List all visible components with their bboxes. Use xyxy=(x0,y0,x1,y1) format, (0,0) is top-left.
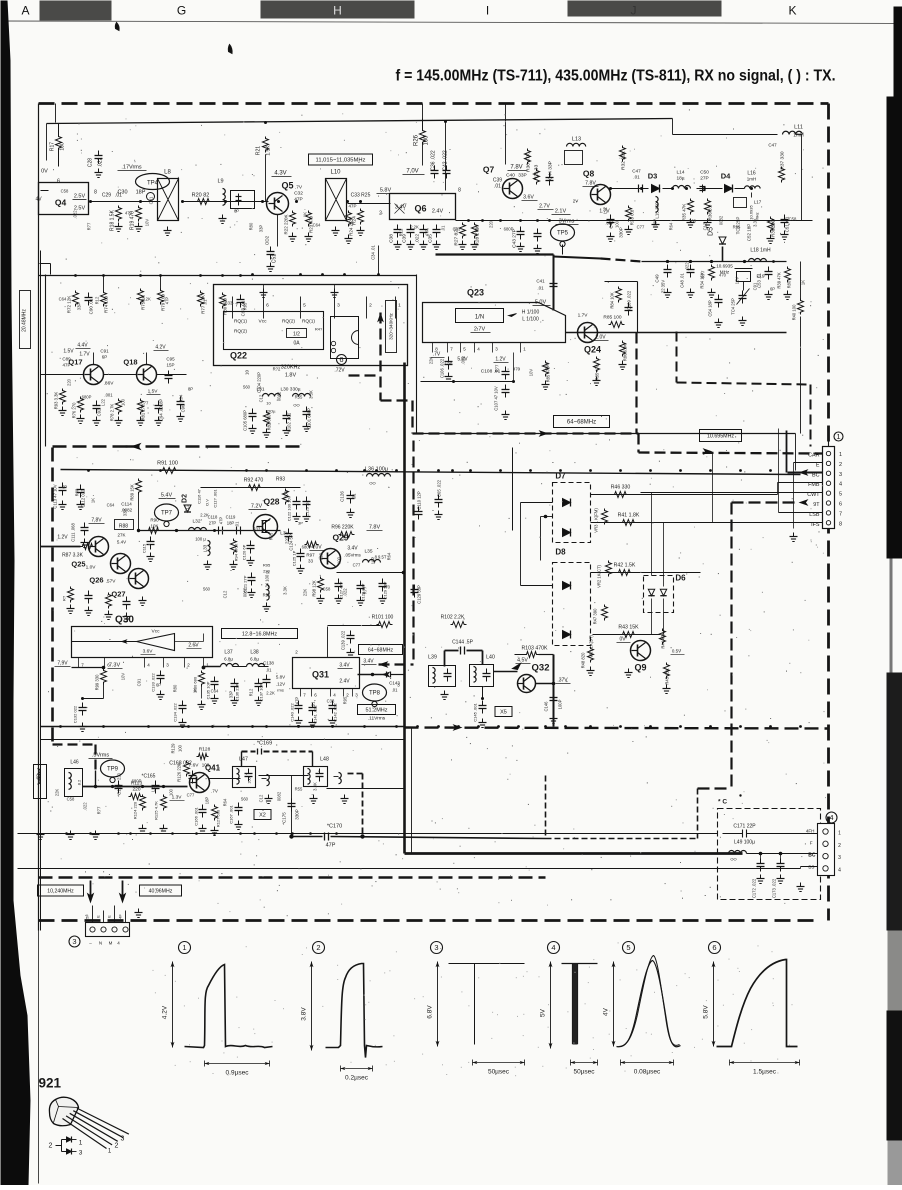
svg-text:3.6V: 3.6V xyxy=(143,649,154,655)
svg-text:.01: .01 xyxy=(494,184,501,190)
svg-text:11,015~11,035MHz: 11,015~11,035MHz xyxy=(316,158,366,164)
svg-text:C34 .01: C34 .01 xyxy=(371,244,376,259)
svg-text:L32: L32 xyxy=(192,519,200,525)
svg-text:R37 330: R37 330 xyxy=(780,151,786,169)
svg-text:BS: BS xyxy=(808,865,814,870)
svg-text:320KHz: 320KHz xyxy=(281,365,301,371)
svg-text:.01: .01 xyxy=(203,299,208,305)
svg-text:R36 3.3: R36 3.3 xyxy=(708,204,713,220)
svg-text:680P: 680P xyxy=(82,395,92,400)
svg-text:2: 2 xyxy=(369,303,372,309)
svg-text:1.5V: 1.5V xyxy=(148,389,159,395)
svg-text:.7V: .7V xyxy=(295,185,303,191)
svg-text:5: 5 xyxy=(626,943,630,952)
svg-text:D5: D5 xyxy=(708,227,715,236)
svg-text:R12: R12 xyxy=(249,688,254,696)
svg-text:R17: R17 xyxy=(50,142,56,151)
svg-text:BC: BC xyxy=(808,853,816,859)
svg-text:R39 47K: R39 47K xyxy=(777,272,782,289)
svg-text:R21: R21 xyxy=(256,146,262,155)
svg-text:100: 100 xyxy=(615,220,620,228)
svg-text:3.3K: 3.3K xyxy=(313,782,318,791)
svg-text:8P: 8P xyxy=(188,387,193,392)
svg-text:0082: 0082 xyxy=(277,391,282,401)
svg-text:1K: 1K xyxy=(91,498,96,503)
svg-text:560: 560 xyxy=(243,385,251,390)
svg-text:.01: .01 xyxy=(537,286,544,291)
svg-text:1.5V: 1.5V xyxy=(63,349,74,355)
svg-text:R?: R? xyxy=(62,595,67,601)
svg-text:F: F xyxy=(810,841,813,846)
svg-text:R76 270: R76 270 xyxy=(72,402,77,419)
svg-text:C136 22P: C136 22P xyxy=(235,683,240,701)
svg-text:* C: * C xyxy=(718,799,727,806)
svg-text:0V: 0V xyxy=(41,169,48,175)
svg-text:C142 .022: C142 .022 xyxy=(333,703,338,722)
svg-text:R64: R64 xyxy=(669,222,674,230)
svg-text:OO: OO xyxy=(369,481,375,486)
svg-text:R43 15K: R43 15K xyxy=(618,625,639,631)
svg-text:FMB: FMB xyxy=(808,482,820,488)
svg-text:C47: C47 xyxy=(768,143,777,148)
svg-text:6P: 6P xyxy=(770,287,775,292)
svg-text:1K: 1K xyxy=(303,212,308,217)
svg-text:L30 330µ: L30 330µ xyxy=(280,387,300,393)
svg-text:C138: C138 xyxy=(263,661,274,666)
svg-text:22K: 22K xyxy=(429,357,434,365)
svg-text:C64: C64 xyxy=(211,689,219,694)
svg-text:10: 10 xyxy=(266,401,271,406)
svg-text:f = 145.00MHz (TS-711), 435.00: f = 145.00MHz (TS-711), 435.00MHz (TS-81… xyxy=(396,68,836,85)
svg-text:7,8V: 7,8V xyxy=(91,518,102,524)
svg-text:5F: 5F xyxy=(85,914,90,919)
svg-text:L31: L31 xyxy=(256,387,264,393)
svg-text:L35: L35 xyxy=(364,549,372,555)
svg-text:R40 100: R40 100 xyxy=(792,304,797,321)
svg-text:2.2K: 2.2K xyxy=(200,513,209,518)
svg-text:3.4V: 3.4V xyxy=(339,663,350,669)
svg-text:3P: 3P xyxy=(298,521,303,526)
svg-text:.01: .01 xyxy=(115,193,122,199)
svg-text:C33: C33 xyxy=(225,301,233,306)
svg-text:C105 680P: C105 680P xyxy=(243,410,248,431)
svg-text:C125 1P: C125 1P xyxy=(292,550,297,566)
svg-text:10.695MHz: 10.695MHz xyxy=(707,433,734,439)
svg-text:1mH: 1mH xyxy=(747,177,757,182)
svg-text:4.4V: 4.4V xyxy=(77,343,88,349)
svg-text:R85 100: R85 100 xyxy=(603,315,621,321)
svg-text:D4: D4 xyxy=(721,172,731,181)
svg-text:.022: .022 xyxy=(83,802,88,811)
svg-text:1/2: 1/2 xyxy=(293,332,300,338)
svg-text:L48: L48 xyxy=(320,757,329,763)
svg-text:L40: L40 xyxy=(486,655,495,661)
svg-text:R55: R55 xyxy=(733,225,741,230)
svg-text:.01: .01 xyxy=(441,225,446,231)
svg-text:7: 7 xyxy=(839,511,842,517)
svg-text:R96 220K: R96 220K xyxy=(331,525,354,531)
svg-text:4F: 4F xyxy=(118,914,123,919)
svg-text:3: 3 xyxy=(79,1150,83,1157)
svg-text:R55: R55 xyxy=(295,395,303,400)
svg-text:C92: C92 xyxy=(97,408,102,416)
svg-text:1.2V: 1.2V xyxy=(57,535,68,541)
svg-text:100: 100 xyxy=(424,135,430,146)
svg-text:1/N: 1/N xyxy=(475,315,484,321)
svg-text:4: 4 xyxy=(829,813,833,822)
svg-text:2.2K: 2.2K xyxy=(266,691,275,696)
svg-text:470: 470 xyxy=(383,585,391,590)
svg-text:C96: C96 xyxy=(181,404,186,412)
svg-text:1.0V: 1.0V xyxy=(86,565,97,571)
svg-text:C33 R25: C33 R25 xyxy=(351,193,371,199)
svg-text:680P: 680P xyxy=(302,545,312,550)
svg-text:Q41: Q41 xyxy=(205,764,221,773)
svg-text:.022: .022 xyxy=(343,588,348,597)
svg-text:R93 3.3K: R93 3.3K xyxy=(54,392,59,410)
svg-text:Q27: Q27 xyxy=(111,590,125,599)
svg-text:220: 220 xyxy=(285,536,290,544)
svg-text:R103 470K: R103 470K xyxy=(522,646,548,652)
svg-text:15P: 15P xyxy=(166,363,174,368)
svg-text:4.5V: 4.5V xyxy=(517,658,528,664)
svg-text:C41: C41 xyxy=(536,279,545,284)
svg-text:Vcc: Vcc xyxy=(259,319,268,325)
svg-text:1: 1 xyxy=(182,943,186,952)
svg-text:7.6V: 7.6V xyxy=(189,763,200,769)
svg-text:R42 1.5K: R42 1.5K xyxy=(614,563,636,569)
svg-text:R94 470K: R94 470K xyxy=(234,543,239,561)
svg-text:4: 4 xyxy=(839,482,842,488)
svg-text:22K: 22K xyxy=(303,589,308,597)
svg-text:R89 15K: R89 15K xyxy=(130,484,135,501)
svg-text:33: 33 xyxy=(308,559,314,564)
svg-text:18P: 18P xyxy=(653,219,658,227)
svg-text:R33 6.8: R33 6.8 xyxy=(630,209,635,225)
svg-text:C143: C143 xyxy=(389,681,400,686)
svg-text:3.3K: 3.3K xyxy=(753,218,758,227)
svg-text:.01: .01 xyxy=(266,668,272,673)
svg-text:2: 2 xyxy=(839,462,842,468)
svg-text:TP8: TP8 xyxy=(369,691,381,697)
svg-text:R12: R12 xyxy=(399,228,404,236)
svg-text:L49 100µ: L49 100µ xyxy=(734,840,755,846)
svg-text:RQ(2): RQ(2) xyxy=(234,329,247,335)
svg-text:8: 8 xyxy=(839,521,842,527)
svg-text:C11? .001: C11? .001 xyxy=(213,489,218,508)
svg-text:.37V: .37V xyxy=(557,678,568,684)
svg-text:*C169: *C169 xyxy=(257,741,272,747)
svg-text:*C165: *C165 xyxy=(142,774,156,780)
svg-text:2.4V: 2.4V xyxy=(339,679,350,685)
svg-text:47P: 47P xyxy=(326,843,336,849)
svg-text:R91 100: R91 100 xyxy=(157,461,178,467)
svg-text:R12: R12 xyxy=(185,504,190,512)
svg-text:7,9V: 7,9V xyxy=(57,661,68,667)
svg-text:2: 2 xyxy=(115,1143,119,1150)
svg-text:100: 100 xyxy=(60,142,66,151)
svg-text:C36 .022: C36 .022 xyxy=(431,150,437,171)
svg-text:R18 1.5K: R18 1.5K xyxy=(110,209,116,231)
svg-text:R35 47K: R35 47K xyxy=(682,204,687,222)
svg-text:R124 220: R124 220 xyxy=(133,801,138,819)
svg-text:R80: R80 xyxy=(787,280,792,288)
svg-text:9T: 9T xyxy=(813,502,820,508)
svg-text:3: 3 xyxy=(839,472,842,478)
svg-text:C146: C146 xyxy=(544,701,549,712)
svg-text:3: 3 xyxy=(72,937,76,946)
svg-text:N: N xyxy=(99,941,102,946)
svg-text:C47: C47 xyxy=(632,169,641,174)
svg-text:R46 330: R46 330 xyxy=(611,485,631,491)
svg-text:OD2: OD2 xyxy=(265,235,270,245)
svg-text:220: 220 xyxy=(489,220,494,228)
svg-text:1.2V: 1.2V xyxy=(495,357,506,363)
svg-text:Q7: Q7 xyxy=(483,165,495,175)
svg-text:.05Vrms: .05Vrms xyxy=(344,553,361,558)
svg-text:33P: 33P xyxy=(123,509,128,517)
svg-text:R24: R24 xyxy=(352,216,358,225)
svg-text:6.8V: 6.8V xyxy=(427,1005,434,1019)
svg-text:0.9µsec: 0.9µsec xyxy=(226,1070,250,1077)
svg-text:C101 680P: C101 680P xyxy=(307,408,312,429)
svg-text:4.3V: 4.3V xyxy=(274,171,286,177)
svg-text:18P: 18P xyxy=(159,399,164,407)
svg-text:64~68MHz: 64~68MHz xyxy=(368,647,394,653)
svg-text:22 35V: 22 35V xyxy=(661,280,666,293)
svg-text:2.2K: 2.2K xyxy=(142,297,151,302)
svg-text:8: 8 xyxy=(94,190,97,196)
svg-text:J: J xyxy=(631,4,637,18)
svg-text:C145 .001: C145 .001 xyxy=(473,703,478,722)
svg-text:7.8V: 7.8V xyxy=(369,525,381,531)
svg-text:560: 560 xyxy=(203,587,211,592)
svg-text:1.8V: 1.8V xyxy=(285,373,297,379)
svg-text:C58: C58 xyxy=(789,217,797,222)
svg-text:6.8µ: 6.8µ xyxy=(224,657,233,662)
svg-text:1.7V: 1.7V xyxy=(578,313,589,319)
svg-text:0082: 0082 xyxy=(719,215,724,225)
svg-text:R127 560: R127 560 xyxy=(216,809,221,827)
svg-text:18P: 18P xyxy=(371,557,376,565)
svg-text:2.0V: 2.0V xyxy=(595,335,606,341)
svg-text:L22: L22 xyxy=(319,552,324,560)
svg-text:L 1/100: L 1/100 xyxy=(522,317,539,323)
svg-text:27P: 27P xyxy=(209,521,217,526)
svg-text:C116 47: C116 47 xyxy=(197,488,202,504)
svg-text:5.0V: 5.0V xyxy=(535,300,547,306)
svg-text:Q23: Q23 xyxy=(467,288,484,298)
svg-text:C133 .022: C133 .022 xyxy=(151,673,156,692)
svg-text:E: E xyxy=(96,915,101,918)
svg-text:5: 5 xyxy=(839,492,842,498)
svg-text:L10: L10 xyxy=(330,170,341,176)
svg-text:R77: R77 xyxy=(97,806,102,814)
svg-text:18P: 18P xyxy=(136,190,146,196)
svg-text:E: E xyxy=(107,915,112,918)
svg-text:C77: C77 xyxy=(187,793,195,798)
svg-text:0082: 0082 xyxy=(243,587,248,597)
svg-text:18P: 18P xyxy=(227,521,235,526)
svg-text:4.0V: 4.0V xyxy=(311,545,322,551)
svg-text:R47 390: R47 390 xyxy=(593,608,598,625)
svg-text:C64: C64 xyxy=(107,503,115,508)
svg-text:10: 10 xyxy=(245,370,250,376)
svg-text:L15 150: L15 150 xyxy=(655,202,660,219)
svg-text:5.8V: 5.8V xyxy=(380,188,392,194)
svg-text:R64: R64 xyxy=(179,394,184,402)
svg-text:L13: L13 xyxy=(572,137,581,143)
svg-text:.022: .022 xyxy=(98,157,104,167)
svg-text:.17Vrms: .17Vrms xyxy=(121,165,142,171)
svg-text:R84 10K: R84 10K xyxy=(610,292,615,309)
svg-text:TP9: TP9 xyxy=(107,767,119,773)
svg-text:Q9: Q9 xyxy=(634,663,646,673)
svg-text:C58: C58 xyxy=(445,361,453,366)
svg-text:C144 .5P: C144 .5P xyxy=(452,640,474,646)
svg-text:6P: 6P xyxy=(234,209,239,214)
svg-text:R93: R93 xyxy=(276,477,285,483)
svg-text:Q25: Q25 xyxy=(71,560,85,569)
svg-text:1mH: 1mH xyxy=(793,133,804,139)
svg-text:R4?: R4? xyxy=(315,327,323,332)
svg-text:TC4 25P: TC4 25P xyxy=(731,298,736,315)
svg-text:47P: 47P xyxy=(425,229,430,237)
svg-text:I: I xyxy=(486,4,489,18)
svg-text:Q18: Q18 xyxy=(123,358,137,367)
svg-text:10.6935: 10.6935 xyxy=(749,205,754,220)
svg-text:7.2V: 7.2V xyxy=(251,504,263,510)
svg-text:C107 47 10V: C107 47 10V xyxy=(494,386,499,411)
svg-text:C91: C91 xyxy=(100,349,109,354)
svg-text:R87 3.3K: R87 3.3K xyxy=(62,553,84,559)
svg-text:33P: 33P xyxy=(77,303,82,311)
svg-text:Q6: Q6 xyxy=(414,204,426,214)
svg-text:C91: C91 xyxy=(149,196,154,204)
svg-text:O.V: O.V xyxy=(205,499,210,506)
svg-text:L14: L14 xyxy=(676,170,684,176)
svg-text:2.2K: 2.2K xyxy=(410,225,419,230)
svg-text:R128: R128 xyxy=(199,747,211,753)
svg-text:RQ(1): RQ(1) xyxy=(234,319,247,325)
svg-text:D3: D3 xyxy=(648,172,658,181)
svg-text:R95: R95 xyxy=(343,696,348,704)
svg-text:2: 2 xyxy=(49,1143,53,1150)
svg-text:R92 470: R92 470 xyxy=(244,478,264,484)
svg-text:33P: 33P xyxy=(229,691,234,699)
svg-text:C167 .001: C167 .001 xyxy=(229,805,234,824)
svg-text:0.2µsec: 0.2µsec xyxy=(345,1075,369,1082)
svg-text:R80: R80 xyxy=(75,488,80,496)
svg-text:C77: C77 xyxy=(637,225,645,230)
svg-text:R81 270: R81 270 xyxy=(141,404,146,421)
svg-text:64~68MHz: 64~68MHz xyxy=(567,420,596,426)
svg-text:5: 5 xyxy=(303,303,306,309)
svg-text:3.4V: 3.4V xyxy=(363,659,374,665)
svg-text:100: 100 xyxy=(121,398,126,406)
svg-text:7.8V: 7.8V xyxy=(510,165,522,171)
svg-text:Q4: Q4 xyxy=(55,198,67,208)
svg-text:R48 820: R48 820 xyxy=(581,652,586,669)
svg-text:2V: 2V xyxy=(573,199,579,204)
svg-text:470: 470 xyxy=(513,367,521,372)
svg-text:Q30: Q30 xyxy=(115,615,134,626)
svg-text:C28: C28 xyxy=(88,158,94,167)
svg-text:L47: L47 xyxy=(239,757,248,763)
svg-text:0.08µsec: 0.08µsec xyxy=(634,1069,661,1076)
svg-text:C139 .022: C139 .022 xyxy=(341,630,346,650)
svg-text:L38: L38 xyxy=(250,650,259,656)
svg-text:6.8µ: 6.8µ xyxy=(250,657,259,662)
svg-text:6: 6 xyxy=(266,303,269,309)
svg-text:51.2MHz: 51.2MHz xyxy=(365,707,387,713)
svg-text:1: 1 xyxy=(836,432,840,441)
svg-text:22K: 22K xyxy=(55,789,60,797)
svg-text:R55: R55 xyxy=(263,593,271,598)
svg-text:RQ(1): RQ(1) xyxy=(302,319,315,325)
svg-text:1: 1 xyxy=(838,831,841,837)
svg-text:L33: L33 xyxy=(203,544,208,552)
svg-text:RQ(2): RQ(2) xyxy=(282,319,295,325)
svg-text:10V: 10V xyxy=(145,219,150,227)
svg-text:R97: R97 xyxy=(306,553,315,558)
svg-text:27P: 27P xyxy=(700,176,709,182)
svg-text:C77: C77 xyxy=(353,563,361,568)
svg-text:Q28: Q28 xyxy=(263,497,279,507)
svg-text:R95: R95 xyxy=(243,302,248,310)
svg-text:R80: R80 xyxy=(173,684,178,692)
svg-text:C95: C95 xyxy=(166,357,175,362)
svg-text:100P: 100P xyxy=(558,699,563,709)
svg-text:L11: L11 xyxy=(794,125,803,131)
svg-text:.72V: .72V xyxy=(334,368,345,374)
svg-text:470: 470 xyxy=(719,273,727,278)
svg-text:0A: 0A xyxy=(293,341,300,347)
svg-text:2.6V: 2.6V xyxy=(188,643,199,649)
svg-text:4FH: 4FH xyxy=(806,829,815,834)
svg-text:.01: .01 xyxy=(633,175,640,180)
svg-text:100: 100 xyxy=(178,744,183,752)
svg-text:C122 100 10V: C122 100 10V xyxy=(287,495,292,521)
svg-text:C54 18P: C54 18P xyxy=(708,300,713,317)
svg-text:R20 82: R20 82 xyxy=(192,193,210,199)
svg-text:680P: 680P xyxy=(132,779,142,784)
svg-text:7.8V: 7.8V xyxy=(585,181,596,187)
svg-text:C119: C119 xyxy=(226,515,236,520)
svg-text:M: M xyxy=(109,941,113,946)
svg-text:1: 1 xyxy=(398,303,401,309)
svg-text:2: 2 xyxy=(838,843,841,849)
svg-text:C171 22P: C171 22P xyxy=(733,824,756,830)
svg-text:K: K xyxy=(788,4,796,18)
svg-text:3.4V: 3.4V xyxy=(347,546,358,552)
svg-text:.7V: .7V xyxy=(211,789,218,794)
svg-text:C65 .022: C65 .022 xyxy=(437,479,442,497)
svg-text:D7: D7 xyxy=(555,472,566,481)
svg-text:R102 2.2K: R102 2.2K xyxy=(441,615,465,621)
svg-text:.01: .01 xyxy=(311,701,316,707)
svg-text:R99 330: R99 330 xyxy=(95,674,100,691)
svg-text:C140 .022: C140 .022 xyxy=(290,703,295,722)
svg-text:.7V: .7V xyxy=(433,352,441,358)
svg-text:6P: 6P xyxy=(102,355,108,360)
svg-text:R101 100: R101 100 xyxy=(372,615,394,621)
svg-text:L37: L37 xyxy=(224,650,233,656)
svg-text:1K: 1K xyxy=(193,688,198,693)
svg-text:5V: 5V xyxy=(540,1008,547,1017)
svg-text:6P: 6P xyxy=(156,683,161,688)
svg-text:C43 27P: C43 27P xyxy=(512,229,518,248)
